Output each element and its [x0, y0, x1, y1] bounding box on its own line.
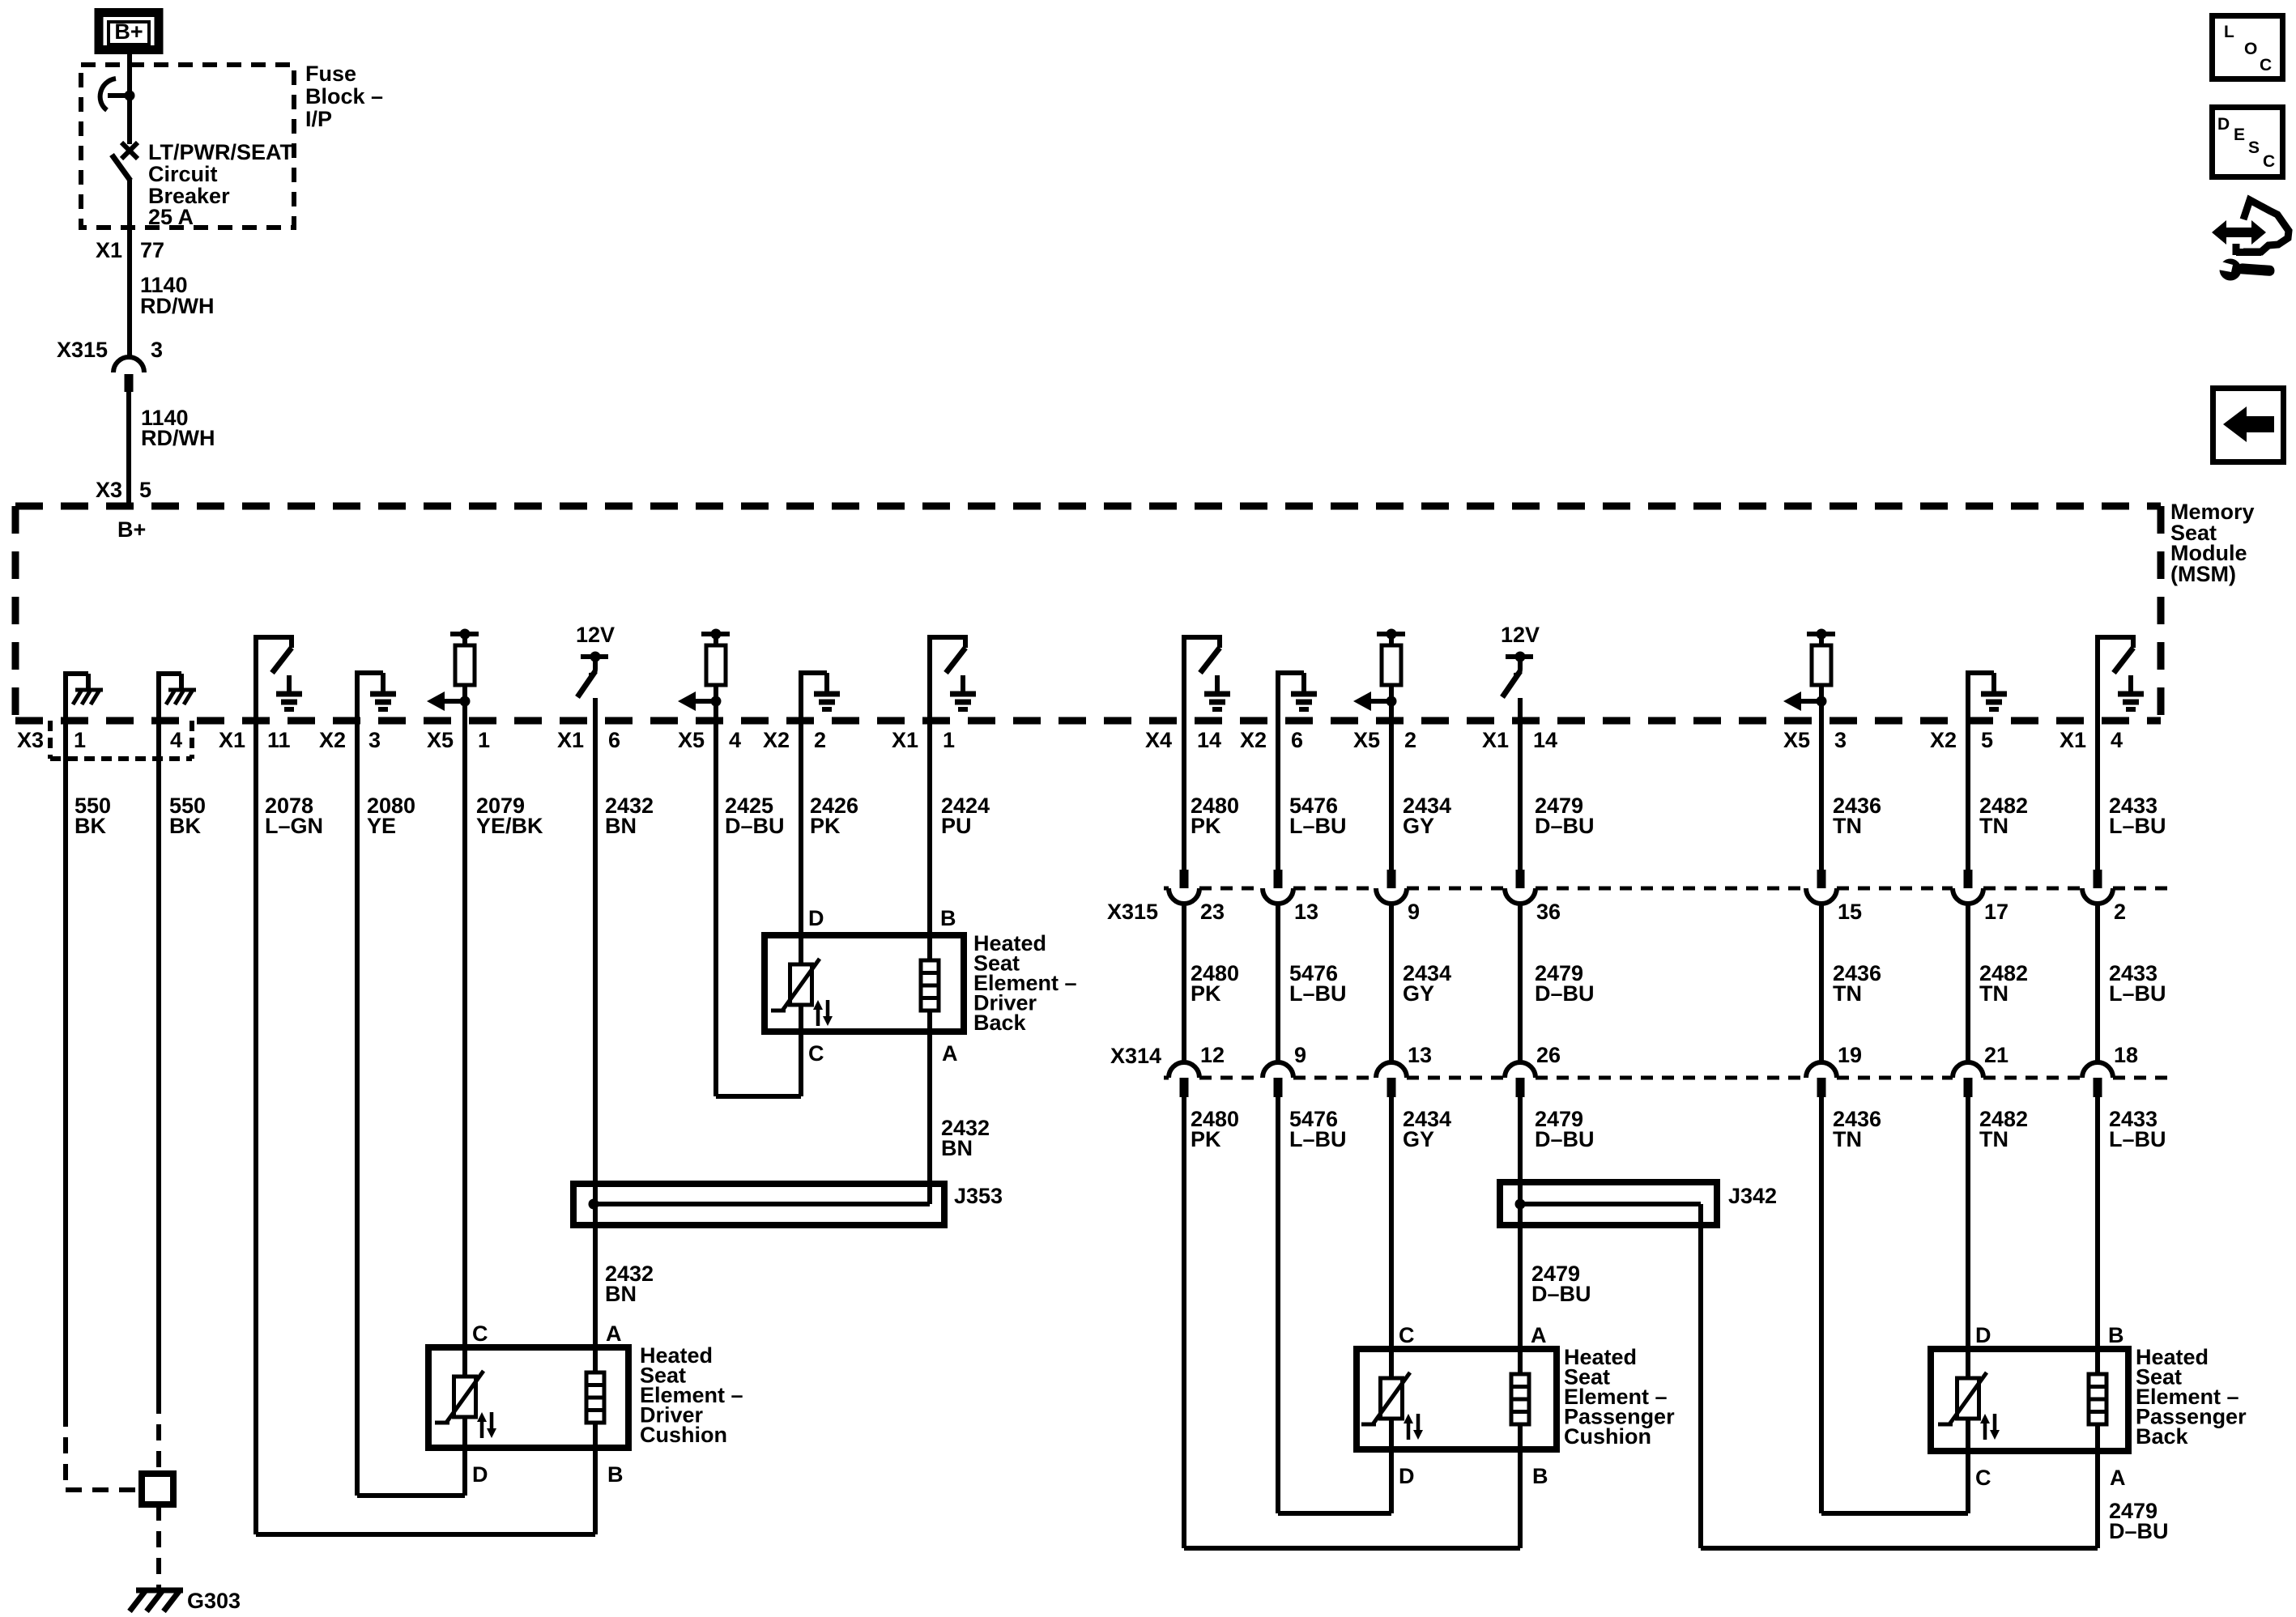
connector X315 cup at 2249	[1817, 870, 1826, 888]
connector X315 cup at 2430	[1964, 870, 1973, 888]
connector X315 cup at 1578	[1274, 870, 1283, 888]
svg-text:Fuse: Fuse	[305, 62, 356, 86]
svg-text:GY: GY	[1403, 981, 1434, 1006]
svg-text:J353: J353	[954, 1184, 1003, 1208]
svg-text:BK: BK	[75, 814, 106, 838]
svg-text:L–BU: L–BU	[1289, 814, 1347, 838]
svg-text:D: D	[1399, 1464, 1415, 1488]
svg-text:PK: PK	[1191, 814, 1221, 838]
svg-text:Back: Back	[973, 1011, 1027, 1035]
svg-text:PU: PU	[941, 814, 972, 838]
svg-text:D: D	[808, 906, 824, 930]
svg-text:Back: Back	[2136, 1424, 2189, 1449]
svg-text:D: D	[1975, 1323, 1991, 1347]
svg-text:3: 3	[1834, 728, 1847, 752]
svg-text:(MSM): (MSM)	[2170, 562, 2236, 586]
svg-text:A: A	[606, 1321, 622, 1346]
svg-text:Block –: Block –	[305, 84, 383, 109]
svg-text:B: B	[1532, 1464, 1548, 1488]
svg-text:4: 4	[729, 728, 741, 752]
wire 2482 TN	[1966, 721, 1970, 888]
svg-text:14: 14	[1533, 728, 1557, 752]
wire through thermistor	[799, 935, 803, 964]
svg-text:9: 9	[1408, 900, 1420, 924]
svg-text:C: C	[2260, 56, 2272, 74]
svg-text:Cushion: Cushion	[1564, 1424, 1651, 1449]
MSM internal ground X2-2	[799, 673, 803, 721]
svg-text:TN: TN	[1833, 814, 1862, 838]
Memory Seat Module dashed box	[15, 503, 2161, 510]
svg-text:BN: BN	[605, 814, 637, 838]
wire through heater	[927, 935, 932, 960]
wire 550 BK pin1	[63, 721, 68, 1411]
svg-text:1: 1	[74, 728, 86, 752]
icon LOC box	[2213, 16, 2283, 79]
svg-text:BN: BN	[941, 1136, 973, 1160]
MSM internal sensor feed resistor X5-1	[450, 632, 479, 636]
splice J353	[573, 1184, 944, 1225]
svg-text:LT/PWR/SEAT: LT/PWR/SEAT	[148, 140, 293, 164]
temperature arrows	[1983, 1422, 1987, 1440]
svg-text:X1: X1	[1482, 728, 1509, 752]
svg-text:23: 23	[1200, 900, 1225, 924]
temperature arrows	[480, 1420, 484, 1438]
thermistor	[1957, 1378, 1979, 1419]
wire 2479 D-BU trunk	[1518, 721, 1523, 888]
splice square S calibration	[142, 1474, 173, 1504]
svg-text:26: 26	[1536, 1043, 1561, 1067]
connector X315 cup at 2590	[2094, 870, 2102, 888]
MSM internal ground X2-6	[1276, 673, 1280, 721]
wire through thermistor	[1389, 1349, 1394, 1378]
svg-text:TN: TN	[1979, 814, 2008, 838]
svg-text:A: A	[1531, 1323, 1547, 1347]
svg-text:L–BU: L–BU	[2109, 981, 2166, 1006]
svg-text:X1: X1	[892, 728, 918, 752]
splice J342	[1500, 1182, 1717, 1225]
wire 2480 PK	[1182, 721, 1186, 888]
heated seat element driver cushion	[428, 1347, 628, 1448]
svg-text:X5: X5	[678, 728, 705, 752]
svg-text:L–GN: L–GN	[265, 814, 323, 838]
icon DESC box	[2213, 108, 2283, 177]
connector X3 dashed outline	[48, 721, 53, 759]
wire 2424 PU	[927, 721, 932, 935]
heated seat element driver back	[765, 935, 964, 1032]
svg-text:14: 14	[1197, 728, 1221, 752]
svg-text:4: 4	[2111, 728, 2123, 752]
MSM internal switch to ground X1-4	[2095, 635, 2100, 721]
svg-text:O: O	[2244, 40, 2257, 58]
svg-text:RD/WH: RD/WH	[140, 294, 214, 318]
temperature arrows	[816, 1008, 820, 1026]
MSM internal chassis ground X3-4	[156, 674, 161, 721]
wire 5476 L-BU	[1276, 721, 1280, 888]
svg-text:11: 11	[267, 728, 291, 752]
svg-text:X2: X2	[1240, 728, 1267, 752]
svg-text:C: C	[472, 1321, 488, 1346]
wire 2078 L-GN	[253, 721, 258, 1534]
svg-text:19: 19	[1838, 1043, 1862, 1067]
MSM internal switch to ground X1-11	[253, 635, 258, 721]
svg-text:D–BU: D–BU	[1535, 981, 1595, 1006]
svg-text:12V: 12V	[1501, 623, 1540, 647]
wire 2432 BN trunk	[593, 721, 598, 1347]
heater element	[2089, 1374, 2106, 1424]
svg-text:PK: PK	[1191, 1127, 1221, 1151]
svg-text:D–BU: D–BU	[1535, 814, 1595, 838]
svg-text:13: 13	[1294, 900, 1318, 924]
svg-text:I/P: I/P	[305, 107, 332, 131]
svg-text:PK: PK	[1191, 981, 1221, 1006]
svg-text:X314: X314	[1110, 1044, 1161, 1068]
heater element	[586, 1372, 604, 1423]
icon back arrow box	[2213, 389, 2284, 462]
svg-text:D–BU: D–BU	[725, 814, 785, 838]
svg-text:X2: X2	[1930, 728, 1957, 752]
svg-text:TN: TN	[1833, 1127, 1862, 1151]
MSM internal sensor feed resistor X5-3	[1807, 632, 1835, 636]
heater element	[1511, 1374, 1529, 1424]
connector X314 cup at 2590	[2082, 1062, 2113, 1078]
svg-text:BK: BK	[169, 814, 201, 838]
svg-text:RD/WH: RD/WH	[141, 426, 215, 450]
thermistor	[1381, 1378, 1403, 1419]
svg-text:B+: B+	[117, 517, 146, 542]
svg-text:1: 1	[943, 728, 955, 752]
svg-text:5: 5	[139, 478, 151, 502]
svg-text:X5: X5	[1783, 728, 1810, 752]
wire through heater	[1518, 1349, 1523, 1374]
wire through heater	[593, 1347, 598, 1372]
svg-text:B+: B+	[114, 19, 143, 44]
svg-text:GY: GY	[1403, 814, 1434, 838]
MSM internal switch to ground X1-1	[927, 635, 932, 721]
svg-text:L–BU: L–BU	[1289, 981, 1347, 1006]
svg-text:2: 2	[814, 728, 826, 752]
MSM internal switch to ground X4-14	[1182, 635, 1186, 721]
wire 2426 PK	[799, 721, 803, 935]
svg-text:PK: PK	[810, 814, 841, 838]
MSM internal sensor feed resistor X5-4	[701, 632, 730, 636]
svg-text:YE/BK: YE/BK	[476, 814, 543, 838]
svg-text:21: 21	[1984, 1043, 2008, 1067]
ground G303	[136, 1588, 183, 1594]
thermistor	[454, 1377, 476, 1417]
svg-text:S: S	[2248, 138, 2260, 157]
heater element	[921, 960, 939, 1011]
connector X314 cup at 1877	[1505, 1062, 1536, 1078]
svg-text:Cushion: Cushion	[640, 1423, 727, 1447]
svg-text:25 A: 25 A	[148, 205, 194, 229]
connector X314 cup at 1578	[1263, 1062, 1293, 1078]
icon wrench	[2220, 259, 2242, 281]
svg-text:1: 1	[478, 728, 490, 752]
svg-text:C: C	[2263, 152, 2275, 171]
svg-text:77: 77	[140, 238, 164, 262]
svg-text:G303: G303	[187, 1589, 241, 1613]
svg-text:12V: 12V	[576, 623, 615, 647]
svg-text:GY: GY	[1403, 1127, 1434, 1151]
B+ battery feed box	[99, 13, 159, 50]
wire 2433 L-BU	[2095, 721, 2100, 888]
svg-text:X3: X3	[17, 728, 44, 752]
connector X314 cup at 1462	[1169, 1062, 1199, 1078]
svg-text:J342: J342	[1728, 1184, 1777, 1208]
svg-text:A: A	[942, 1041, 958, 1066]
svg-text:D: D	[472, 1462, 488, 1487]
svg-text:Circuit: Circuit	[148, 162, 218, 186]
svg-text:5: 5	[1981, 728, 1993, 752]
svg-text:B: B	[607, 1462, 624, 1487]
svg-text:C: C	[1975, 1466, 1991, 1490]
svg-text:3: 3	[151, 338, 163, 362]
wire 2434 GY	[1389, 721, 1394, 888]
wire 2079 YE/BK	[462, 721, 467, 1347]
thermistor	[790, 964, 812, 1005]
fuse block dashed box	[81, 65, 294, 228]
svg-text:2: 2	[2114, 900, 2126, 924]
svg-text:4: 4	[170, 728, 182, 752]
svg-text:D–BU: D–BU	[1535, 1127, 1595, 1151]
svg-text:X2: X2	[763, 728, 790, 752]
svg-text:15: 15	[1838, 900, 1862, 924]
connector X315 cup at 1718	[1387, 870, 1396, 888]
wire through thermistor	[1966, 1349, 1970, 1378]
MSM internal ground X2-5	[1966, 673, 1970, 721]
svg-text:B: B	[940, 906, 956, 930]
svg-text:A: A	[2110, 1466, 2126, 1490]
svg-text:L: L	[2224, 23, 2234, 41]
svg-text:X5: X5	[1353, 728, 1380, 752]
svg-text:X1: X1	[96, 238, 122, 262]
svg-text:TN: TN	[1979, 981, 2008, 1006]
svg-text:6: 6	[1291, 728, 1303, 752]
connector X314 cup at 2249	[1806, 1062, 1837, 1078]
svg-text:L–BU: L–BU	[2109, 814, 2166, 838]
svg-text:L–BU: L–BU	[2109, 1127, 2166, 1151]
svg-text:3: 3	[368, 728, 381, 752]
svg-text:13: 13	[1408, 1043, 1432, 1067]
svg-text:L–BU: L–BU	[1289, 1127, 1347, 1151]
wire through heater	[2095, 1349, 2100, 1374]
svg-text:X5: X5	[427, 728, 454, 752]
wire 2080 YE	[355, 721, 360, 1496]
svg-text:D: D	[2217, 115, 2230, 134]
MSM internal sensor feed resistor X5-2	[1377, 632, 1405, 636]
svg-text:9: 9	[1294, 1043, 1306, 1067]
icon diagnostic connector outline	[2243, 200, 2289, 252]
svg-text:36: 36	[1536, 900, 1561, 924]
svg-text:17: 17	[1984, 900, 2008, 924]
connector X315 cup at 1462	[1180, 870, 1189, 888]
wire 2425 D-BU	[714, 721, 718, 1096]
wire 2479 D-BU branch from J342	[1698, 1225, 1703, 1548]
heated seat element passenger back	[1931, 1349, 2128, 1451]
svg-text:2: 2	[1404, 728, 1416, 752]
svg-text:TN: TN	[1833, 981, 1862, 1006]
svg-text:YE: YE	[367, 814, 396, 838]
wire 2436 TN	[1819, 721, 1824, 888]
svg-text:X2: X2	[319, 728, 346, 752]
icon double arrow	[2212, 220, 2266, 245]
temperature arrows	[1407, 1422, 1411, 1440]
connector X314 cup at 2430	[1953, 1062, 1983, 1078]
wire to G303	[156, 1504, 161, 1589]
svg-text:C: C	[808, 1041, 824, 1066]
circuit breaker CB symbol	[125, 91, 135, 101]
svg-text:X4: X4	[1145, 728, 1172, 752]
wire B+ to circuit breaker	[127, 54, 132, 93]
MSM internal ground X2-3	[355, 673, 360, 721]
svg-text:C: C	[1399, 1323, 1415, 1347]
svg-text:X3: X3	[96, 478, 122, 502]
wire 2432 BN element back	[927, 1032, 932, 1204]
MSM internal chassis ground X3-1	[63, 674, 68, 721]
svg-text:X1: X1	[219, 728, 245, 752]
svg-text:BN: BN	[605, 1282, 637, 1306]
heated seat element passenger cushion	[1357, 1349, 1557, 1449]
connector X314 cup at 1718	[1376, 1062, 1407, 1078]
svg-text:X315: X315	[57, 338, 108, 362]
svg-text:D–BU: D–BU	[2109, 1519, 2169, 1543]
connector X315 cup at 1877	[1516, 870, 1525, 888]
wire through thermistor	[462, 1347, 467, 1377]
svg-text:TN: TN	[1979, 1127, 2008, 1151]
svg-text:X1: X1	[2060, 728, 2086, 752]
svg-text:D–BU: D–BU	[1531, 1282, 1591, 1306]
wire 550 BK pin4	[156, 721, 161, 1398]
svg-text:X315: X315	[1107, 900, 1158, 924]
svg-text:E: E	[2234, 126, 2245, 144]
svg-text:12: 12	[1200, 1043, 1225, 1067]
svg-text:B: B	[2108, 1323, 2124, 1347]
svg-text:X1: X1	[557, 728, 584, 752]
svg-text:18: 18	[2114, 1043, 2138, 1067]
svg-text:6: 6	[608, 728, 620, 752]
